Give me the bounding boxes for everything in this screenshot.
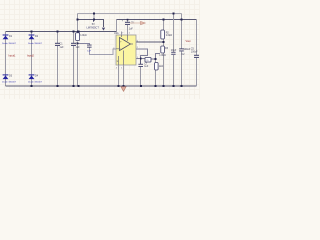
svg-text:Diode 1N4007: Diode 1N4007 [2, 43, 17, 45]
net arrow rail1 [102, 28, 105, 31]
svg-text:1kΩ: 1kΩ [159, 65, 164, 68]
svg-text:4: 4 [116, 68, 117, 70]
wire rail1 y31.5 [6, 31, 117, 33]
svg-text:1uF: 1uF [87, 51, 91, 53]
wire bottom rail [6, 85, 197, 87]
op-amp U1 package [114, 32, 136, 65]
resistor R6 [155, 63, 164, 71]
capacitor C7 [138, 62, 148, 68]
wire vertical x31 [31, 32, 33, 87]
wire U1 stub x121 [121, 32, 123, 36]
svg-text:100uF: 100uF [191, 50, 198, 53]
svg-text:LM7805CT: LM7805CT [87, 27, 100, 30]
wire vertical x73 cap C2 leg [73, 32, 75, 87]
svg-text:1uF: 1uF [144, 65, 149, 68]
wire top rail H1 [78, 13, 182, 15]
wire U1 bottom pin x123 [123, 65, 125, 86]
node rail-b x31 [31, 85, 33, 87]
wire cap x140.7 leg [140, 58, 142, 63]
svg-text:1.0kΩ: 1.0kΩ [159, 54, 166, 57]
node rail2a-x94 [93, 19, 95, 21]
svg-text:1uF: 1uF [129, 27, 134, 30]
node rail-b x118 [118, 85, 120, 87]
svg-text:2: 2 [137, 47, 138, 49]
node rail2-x163 [163, 19, 165, 21]
node H1-x173 [173, 13, 175, 15]
svg-text:1: 1 [121, 68, 122, 70]
wire tap from R1 bottom to zener node [78, 43, 90, 44]
node H1-x94 [93, 13, 95, 15]
node rail-b x173 [173, 85, 175, 87]
node rail1-x57 [57, 31, 59, 33]
node rail2-x77 [77, 19, 79, 21]
capacitor C4 x181 [179, 48, 191, 56]
node loop x155.4 [155, 58, 157, 60]
node tap-x77 [77, 43, 79, 45]
capacitor C3 x173 [171, 49, 177, 55]
svg-text:Input2: Input2 [27, 55, 35, 58]
svg-text:Vout: Vout [186, 40, 191, 43]
ground arrow [121, 87, 126, 92]
wire stub x94 [93, 14, 95, 20]
svg-text:1uF: 1uF [60, 46, 65, 49]
wire vertical x78 resistor R1 leg [77, 42, 79, 87]
resistor R2 divider top [161, 30, 172, 39]
svg-text:1uF: 1uF [76, 46, 81, 49]
diode D2 [28, 35, 43, 46]
svg-text:100uF: 100uF [183, 48, 190, 51]
node rail-b x163 [163, 85, 165, 87]
resistor R1 [76, 33, 87, 41]
node divider mid [163, 41, 165, 43]
junction dots [31, 13, 183, 88]
svg-text:2: 2 [113, 48, 114, 50]
wire rail2b y19.5 [116, 20, 118, 32]
pin numbers [113, 33, 138, 70]
wire x173 cap leg [173, 14, 175, 87]
svg-text:1: 1 [129, 33, 130, 35]
wire vertical x57 cap C1 leg [57, 32, 59, 87]
svg-text:Diode 1N4007: Diode 1N4007 [28, 82, 43, 84]
capacitor C5 x196 [191, 48, 199, 58]
svg-text:Diode 1N4007: Diode 1N4007 [28, 43, 43, 45]
node rail-b x73 [73, 85, 75, 87]
svg-text:5V: 5V [92, 23, 95, 26]
svg-text:Diode 1N4007: Diode 1N4007 [2, 82, 17, 84]
node rail1-x31 [31, 31, 33, 33]
wire U1 bottom pin x118 [118, 65, 120, 86]
resistor R3 divider bottom [159, 46, 168, 57]
capacitor C9 top [122, 19, 135, 30]
node loop x140.7 [140, 58, 142, 60]
node rail-b x181 [181, 85, 183, 87]
wire U1 output to divider node [136, 41, 164, 43]
resistor R5 feedback [145, 58, 151, 63]
wire vertical x5 [5, 32, 7, 87]
node rail1-x78 [77, 31, 80, 33]
svg-text:10uF: 10uF [171, 49, 177, 52]
wire x196 vertical [196, 20, 198, 87]
capacitor C8 [87, 45, 92, 53]
svg-text:1.0kΩ: 1.0kΩ [80, 34, 87, 37]
svg-text:6: 6 [137, 41, 138, 43]
node rail-b x57 [57, 85, 59, 87]
node rail2-x181 [181, 19, 183, 21]
diode D1 [2, 35, 17, 46]
net arrow V+ [130, 21, 145, 24]
svg-text:U2A: U2A [114, 32, 119, 35]
label 5V [93, 20, 95, 22]
node rail1-x73 [73, 31, 75, 33]
wire x181 vertical [181, 14, 183, 87]
node rail-b x78 [78, 85, 80, 87]
diode D4 [28, 74, 43, 83]
svg-text:1: 1 [137, 57, 138, 59]
capacitor C1 [55, 43, 64, 49]
node rail-b x140.7 [140, 85, 142, 87]
node rail-b x155.4 [155, 85, 157, 87]
svg-text:-: - [120, 48, 121, 51]
svg-text:11: 11 [117, 61, 119, 63]
svg-text:7: 7 [122, 33, 123, 35]
wire vertical x77 top [77, 14, 79, 32]
diode D3 [2, 74, 17, 83]
wire x155 down [154, 59, 156, 86]
node rail2b-cap [127, 19, 129, 21]
svg-text:Input1: Input1 [9, 55, 17, 58]
wire U1 pin B loop [136, 49, 160, 59]
wire cap C9 leg from rail2b to U1 top pin [127, 20, 129, 36]
wire rail2a y19.5 [78, 20, 104, 28]
svg-text:1.0kΩ: 1.0kΩ [166, 34, 173, 37]
capacitor C2 [71, 43, 80, 49]
node rail-b x123 [123, 85, 125, 87]
op-amp U1 triangle [116, 35, 133, 65]
wire divider x163 [163, 20, 165, 87]
